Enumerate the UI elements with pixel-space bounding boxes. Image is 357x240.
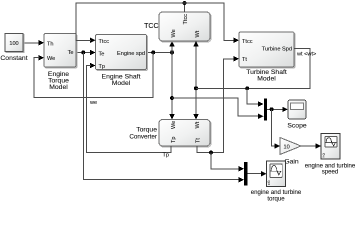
block Torque Converter xyxy=(129,120,211,148)
block engine and turbine torque viewer xyxy=(251,161,302,202)
svg-text:Tp: Tp xyxy=(99,64,106,70)
svg-text:100: 100 xyxy=(9,41,18,47)
arrowhead into Ttcc of Engine Shaft Model xyxy=(90,38,95,43)
svg-text:Ttcc: Ttcc xyxy=(183,14,189,25)
node we junction at y98 xyxy=(170,96,174,100)
node wt branch junction xyxy=(245,86,249,90)
svg-text:Model: Model xyxy=(49,84,68,91)
node wt junction xyxy=(194,86,198,90)
block engine and turbine speed viewer xyxy=(305,134,356,176)
wire Turbine Spd output (wt) xyxy=(196,48,310,88)
wire wt to scope mux upper input xyxy=(247,88,263,106)
wire Tp feedback (Torque Converter to Engine Shaft Model) xyxy=(86,66,171,153)
arrowhead into We of Engine Torque Model xyxy=(39,55,44,60)
mux for scope xyxy=(264,99,267,121)
arrowhead into Te of Engine Shaft Model xyxy=(90,50,95,55)
svg-text:Tt: Tt xyxy=(196,138,202,143)
svg-text:We: We xyxy=(47,56,55,62)
svg-text:Model: Model xyxy=(112,80,131,87)
svg-text:speed: speed xyxy=(322,169,339,176)
svg-text:Wt: Wt xyxy=(195,30,201,37)
svg-text:Gain: Gain xyxy=(284,158,299,165)
wire We vertical up to TCC xyxy=(171,46,173,53)
svg-text:wt <wt>: wt <wt> xyxy=(296,52,316,58)
svg-text:Constant: Constant xyxy=(0,55,27,62)
svg-text:10: 10 xyxy=(284,145,290,151)
wire Wt vertical (TCC to Torque Converter) xyxy=(195,46,197,115)
block Engine Shaft Model xyxy=(96,35,148,87)
svg-text:Model: Model xyxy=(257,76,276,83)
wire Ttcc output up from TCC xyxy=(184,3,186,12)
svg-text:We: We xyxy=(171,29,177,37)
wire Engine spd output xyxy=(147,51,173,53)
svg-text:Te: Te xyxy=(99,51,105,57)
svg-text:Scope: Scope xyxy=(287,123,306,130)
wire to Gain xyxy=(272,109,280,148)
arrowhead into Tp of Engine Shaft Model xyxy=(90,63,95,68)
wire we feedback to Engine Torque Model We xyxy=(34,52,153,97)
svg-text:Wt: Wt xyxy=(195,121,201,128)
wire Tt (Torque Converter to Turbine Shaft Model) xyxy=(197,56,239,153)
wire Te (Engine Torque Model output to Engine Shaft Model) xyxy=(76,50,96,55)
wire Ttcc right to Turbine Shaft Model xyxy=(185,3,240,43)
svg-text:Ttcc: Ttcc xyxy=(99,39,110,45)
wire Constant to Th xyxy=(23,40,44,45)
block Engine Torque Model xyxy=(44,34,77,91)
arrowhead into Th xyxy=(39,40,44,45)
svg-text:Engine spd: Engine spd xyxy=(117,51,145,57)
node engine speed junction 2 xyxy=(170,50,174,54)
svg-text:torque: torque xyxy=(267,195,285,202)
wire Tt branch to torque mux xyxy=(211,153,244,172)
node engine speed junction 1 xyxy=(151,50,155,54)
node Tt branch junction xyxy=(209,151,213,155)
svg-text:Tp: Tp xyxy=(171,136,177,143)
svg-text:TCC: TCC xyxy=(144,23,158,30)
svg-text:Tp: Tp xyxy=(163,153,170,159)
wire torque mux to torque viewer xyxy=(248,171,267,176)
svg-text:Tt: Tt xyxy=(242,57,247,63)
wire Te branch down to torque mux xyxy=(83,52,244,182)
block Scope xyxy=(287,100,306,130)
node scope/gain junction xyxy=(270,107,274,111)
node Te junction xyxy=(81,50,85,54)
svg-text:Ttcc: Ttcc xyxy=(242,39,253,45)
svg-text:Th: Th xyxy=(47,41,54,47)
wire We vertical down to Torque Converter xyxy=(171,52,173,115)
svg-text:We: We xyxy=(171,121,177,129)
mux for torque xyxy=(244,162,248,186)
wire mux to Scope xyxy=(267,107,288,112)
svg-text:Te: Te xyxy=(68,50,74,56)
block Gain (10) xyxy=(280,138,301,166)
block TCC xyxy=(144,12,211,42)
svg-text:we: we xyxy=(89,100,97,106)
block Turbine Shaft Model xyxy=(239,32,295,83)
svg-text:Turbine Spd: Turbine Spd xyxy=(262,46,292,52)
wire Ttcc feedback left to Engine Shaft Model xyxy=(76,3,185,40)
node Ttcc junction xyxy=(183,1,187,5)
svg-text:Converter: Converter xyxy=(129,133,157,140)
wire we to scope mux lower input xyxy=(172,98,264,119)
constant block Constant (100) xyxy=(0,34,27,63)
wire Gain to speed viewer xyxy=(301,143,321,148)
